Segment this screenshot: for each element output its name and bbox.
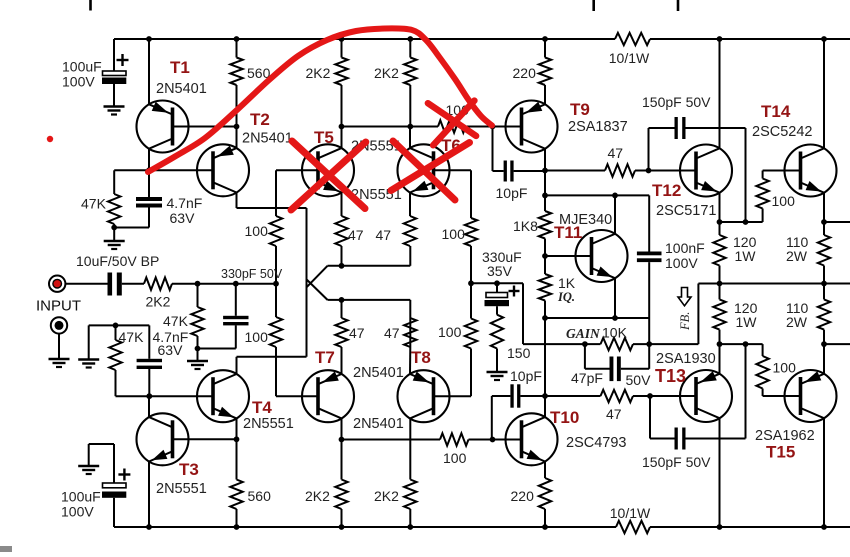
junction T4 base node bbox=[146, 393, 152, 399]
resistor 47 under T6 bbox=[376, 193, 417, 247]
svg-text:T7: T7 bbox=[315, 348, 335, 367]
resistor 120 1W lower bbox=[713, 284, 757, 345]
wire shunt ground leg bbox=[88, 325, 90, 359]
ground under 100uF bottom bbox=[78, 466, 99, 474]
svg-text:47K: 47K bbox=[119, 329, 145, 345]
wire gain line left bbox=[523, 343, 601, 345]
svg-text:2K2: 2K2 bbox=[374, 65, 399, 81]
resistor 110 2W lower bbox=[786, 284, 830, 345]
svg-text:47: 47 bbox=[348, 227, 364, 243]
wire T3 emitter down bbox=[148, 462, 150, 528]
svg-text:T8: T8 bbox=[411, 348, 431, 367]
svg-text:2W: 2W bbox=[786, 248, 808, 264]
junction upper tail bbox=[339, 263, 345, 269]
wire 100uF bottom to ground bbox=[89, 444, 114, 466]
wire input column to T7 base bbox=[276, 395, 318, 397]
svg-text:150pF 50V: 150pF 50V bbox=[642, 94, 711, 110]
wire tail diagonal upper bbox=[307, 266, 328, 288]
resistor 47 under T5 bbox=[335, 193, 363, 266]
svg-text:T5: T5 bbox=[314, 128, 334, 147]
wire T1 emitter to rail bbox=[148, 39, 150, 104]
wire feedback riser bbox=[697, 284, 699, 345]
wire T14 base wire bbox=[763, 170, 801, 172]
wire vertical bus x306 bbox=[306, 208, 308, 357]
junction T5 collector node bbox=[339, 124, 345, 130]
wire lower 47 line left bbox=[545, 395, 601, 397]
junction tap line left bbox=[468, 280, 474, 286]
junction 150pF left at T12 base bbox=[646, 168, 652, 174]
wire T15 emitter stub bbox=[824, 343, 850, 345]
wire T3 collector up bbox=[148, 396, 150, 417]
wire T15 collector to rail bbox=[823, 418, 825, 527]
wire T11 emitter down bbox=[614, 278, 616, 318]
input jack signal bbox=[36, 276, 81, 315]
svg-text:2N5401: 2N5401 bbox=[353, 416, 404, 432]
svg-text:10K: 10K bbox=[602, 325, 628, 341]
wire T13 base wire bbox=[650, 395, 696, 397]
svg-text:47: 47 bbox=[376, 227, 392, 243]
resistor 120 1W upper bbox=[713, 222, 756, 284]
junction 220 rail bbox=[542, 36, 548, 42]
junction T14 emitter node bbox=[821, 219, 827, 225]
wire T2 collector down bbox=[236, 193, 238, 209]
resistor 100 T6 base column bbox=[442, 170, 478, 283]
svg-text:10/1W: 10/1W bbox=[609, 50, 650, 66]
svg-text:220: 220 bbox=[511, 488, 535, 504]
svg-text:T14: T14 bbox=[761, 102, 791, 121]
junction 2K2 bottom second rail bbox=[407, 524, 413, 530]
wire T11 base wire bbox=[545, 255, 592, 257]
junction T4 emitter / T3 base bbox=[234, 436, 240, 442]
svg-text:10pF: 10pF bbox=[496, 185, 528, 201]
wire T7 collector line bbox=[342, 439, 441, 441]
svg-text:T15: T15 bbox=[766, 443, 795, 462]
resistor 220 top bbox=[513, 39, 552, 104]
resistor 100 to T10 base bbox=[440, 433, 469, 466]
capacitor 150pF 50V upper bbox=[642, 94, 746, 222]
svg-text:100V: 100V bbox=[62, 74, 95, 90]
junction T11 emitter node bbox=[542, 315, 548, 321]
transistor T4 2N5551 bbox=[197, 370, 294, 432]
transistor T14 2SC5242 bbox=[752, 102, 837, 197]
capacitor 100uF 100V bottom bbox=[61, 444, 130, 527]
svg-text:2SA1930: 2SA1930 bbox=[656, 351, 716, 367]
junction T15 collector rail bbox=[821, 524, 827, 530]
wire T9 collector down bbox=[544, 149, 546, 171]
wire T14 emitter stub bbox=[824, 221, 850, 223]
junction 150pF right bbox=[743, 219, 749, 225]
svg-text:220: 220 bbox=[513, 65, 537, 81]
red X over 100 resistor bbox=[428, 101, 476, 146]
wire output tap line y283 bbox=[471, 282, 523, 284]
svg-text:1W: 1W bbox=[736, 314, 758, 330]
svg-text:T9: T9 bbox=[570, 100, 590, 119]
wire bottom supply rail left segment bbox=[114, 526, 616, 528]
capacitor 330pF 50V bbox=[198, 267, 283, 349]
transistor T12 2SC5171 bbox=[652, 145, 732, 220]
wire T10 collector up bbox=[544, 396, 546, 417]
wire T4 emitter down bbox=[236, 418, 238, 439]
wire lower tail line bbox=[328, 300, 411, 318]
ground under 100uF top bbox=[104, 107, 125, 115]
junction column y195 bbox=[542, 193, 548, 199]
wire T2 base line bbox=[150, 169, 213, 171]
junction 47K lower top bbox=[113, 323, 119, 329]
ground under ground jack bbox=[49, 359, 70, 367]
svg-text:100: 100 bbox=[773, 360, 797, 376]
svg-text:100uF: 100uF bbox=[62, 59, 102, 75]
svg-text:2K2: 2K2 bbox=[146, 294, 171, 310]
capacitor 4.7nF 63V upper bbox=[114, 170, 202, 227]
junction T12 collector rail bbox=[717, 36, 723, 42]
junction 47pF right bbox=[646, 341, 652, 347]
capacitor 10uF/50V BP bbox=[76, 253, 159, 296]
junction 47K / 4.7nF bottom bbox=[111, 225, 117, 231]
junction input node bbox=[273, 281, 279, 287]
svg-text:4.7nF: 4.7nF bbox=[167, 195, 203, 211]
wire bus to T4 collector bbox=[237, 357, 307, 374]
wire T13 emitter up bbox=[719, 344, 721, 374]
input ground jack bbox=[51, 317, 67, 333]
wire bottom supply rail right segment bbox=[650, 526, 850, 528]
junction T10 collector node bbox=[542, 393, 548, 399]
wire shunt to T4 base bbox=[116, 395, 214, 397]
transistor T13 2SA1930 bbox=[655, 351, 732, 422]
junction T15 emitter node bbox=[821, 341, 827, 347]
transistor T10 2SC4793 bbox=[506, 408, 627, 465]
svg-text:1K8: 1K8 bbox=[513, 218, 538, 234]
svg-text:47: 47 bbox=[608, 145, 624, 161]
svg-text:FB.: FB. bbox=[678, 312, 692, 331]
junction T13 collector rail bbox=[717, 524, 723, 530]
wire T11 collector up bbox=[614, 195, 616, 233]
wire T5 collector up bbox=[341, 127, 343, 149]
wire gain line right bbox=[633, 343, 698, 345]
junction 47pF left bbox=[582, 341, 588, 347]
wire T15 emitter up bbox=[823, 344, 825, 374]
svg-text:47: 47 bbox=[349, 325, 365, 341]
wire shunt line y325 bbox=[89, 324, 150, 326]
svg-text:63V: 63V bbox=[158, 342, 184, 358]
svg-text:2W: 2W bbox=[786, 314, 808, 330]
resistor 100 horizontal crossed bbox=[438, 102, 469, 133]
resistor 100 T14 base bbox=[756, 171, 795, 223]
svg-text:T1: T1 bbox=[170, 58, 190, 77]
wire T8 base bbox=[434, 395, 472, 397]
svg-text:100: 100 bbox=[443, 450, 467, 466]
wire T7 collector down bbox=[341, 418, 343, 439]
resistor 100 T15 base bbox=[756, 344, 796, 396]
junction T11 collector bbox=[612, 193, 618, 199]
svg-text:47pF: 47pF bbox=[571, 370, 603, 386]
transistor T8 2N5401 bbox=[353, 348, 450, 432]
svg-text:47: 47 bbox=[606, 406, 622, 422]
junction T6 collector node bbox=[407, 124, 413, 130]
capacitor 330uF 35V bbox=[482, 249, 522, 315]
svg-text:2SA1837: 2SA1837 bbox=[568, 119, 628, 135]
svg-text:2SA1962: 2SA1962 bbox=[755, 428, 815, 444]
svg-text:2N5551: 2N5551 bbox=[243, 416, 294, 432]
wire node to 47K upper bbox=[114, 170, 150, 194]
wire T8 collector down bbox=[409, 418, 411, 479]
svg-text:MJE340: MJE340 bbox=[559, 212, 612, 228]
wire T10 base wire bbox=[493, 439, 522, 441]
capacitor 10pF upper bbox=[493, 127, 546, 202]
corner artifact bbox=[0, 546, 12, 552]
transistor T11 MJE340 bbox=[554, 212, 628, 282]
svg-text:150: 150 bbox=[507, 345, 531, 361]
wire T15 base wire bbox=[763, 395, 801, 397]
wire lower 47 line right bbox=[633, 395, 696, 397]
svg-text:T2: T2 bbox=[250, 110, 270, 129]
junction 330uF top bbox=[494, 280, 500, 286]
svg-text:2SC5242: 2SC5242 bbox=[752, 124, 812, 140]
resistor 2K2 top first bbox=[306, 39, 348, 127]
junction output 120 bbox=[717, 281, 723, 287]
wire T5 base bbox=[276, 170, 318, 208]
red annotation dot bbox=[47, 136, 53, 142]
svg-text:2K2: 2K2 bbox=[305, 488, 330, 504]
svg-text:100V: 100V bbox=[61, 504, 94, 520]
net stub tick top-left bbox=[89, 0, 92, 11]
svg-text:100uF: 100uF bbox=[61, 489, 101, 505]
resistor 150 bbox=[491, 315, 531, 372]
ground under input 47K bbox=[187, 349, 208, 370]
resistor 10K gain bbox=[566, 325, 633, 351]
capacitor 10pF lower bbox=[492, 368, 545, 439]
resistor 47 to T12 base bbox=[545, 145, 696, 177]
transistor T3 2N5551 bbox=[137, 413, 207, 497]
junction output 110 bbox=[821, 281, 827, 287]
wire T13 collector to rail bbox=[719, 418, 721, 527]
svg-text:150pF 50V: 150pF 50V bbox=[642, 454, 711, 470]
resistor 47 to T13 base bbox=[601, 390, 634, 422]
ground under 47K upper-left bbox=[104, 228, 125, 250]
svg-text:100: 100 bbox=[245, 223, 269, 239]
wire upper tail line bbox=[328, 246, 411, 266]
resistor 47K upper-left bbox=[81, 194, 120, 228]
svg-text:2K2: 2K2 bbox=[374, 488, 399, 504]
junction T11 emitter line bbox=[612, 315, 618, 321]
svg-text:35V: 35V bbox=[487, 263, 513, 279]
capacitor 47pF 50V bbox=[571, 344, 651, 388]
resistor 2K2 input bbox=[144, 278, 172, 310]
capacitor 100nF 100V bbox=[637, 195, 705, 344]
transistor T6 2N5551 bbox=[351, 136, 461, 203]
svg-text:47K: 47K bbox=[81, 196, 107, 212]
svg-text:50V: 50V bbox=[626, 372, 652, 388]
wire jack to cap bbox=[65, 283, 107, 285]
svg-text:2N5401: 2N5401 bbox=[156, 81, 207, 97]
net stub tick top-mid2 bbox=[677, 0, 680, 11]
svg-text:47K: 47K bbox=[163, 313, 189, 329]
svg-text:10uF/50V BP: 10uF/50V BP bbox=[76, 253, 159, 269]
junction 560 rail bbox=[234, 36, 240, 42]
resistor 560 bottom bbox=[230, 439, 271, 527]
junction T1 collector / T2 base node bbox=[146, 167, 152, 173]
capacitor 100uF 100V top bbox=[62, 39, 129, 106]
resistor 47 above T8 bbox=[384, 318, 417, 374]
wire T13 emitter line bbox=[720, 343, 763, 345]
svg-text:IQ.: IQ. bbox=[557, 290, 575, 304]
svg-text:47: 47 bbox=[384, 325, 400, 341]
wire T1 base to node bbox=[173, 126, 237, 128]
junction 2K2 second rail bbox=[407, 36, 413, 42]
junction T9 base node bbox=[490, 124, 496, 130]
svg-text:100: 100 bbox=[772, 193, 796, 209]
svg-text:10pF: 10pF bbox=[510, 368, 542, 384]
wire T11 collector feed line bbox=[545, 194, 649, 196]
svg-text:1K: 1K bbox=[558, 275, 576, 291]
wire T2 emitter up bbox=[236, 127, 238, 149]
ground under shunt bbox=[78, 360, 99, 368]
resistor 2K2 top second bbox=[374, 39, 417, 127]
junction 220 bottom rail bbox=[542, 524, 548, 530]
transistor T5 2N5551 bbox=[302, 128, 402, 196]
red X over T6 bbox=[391, 141, 470, 200]
junction 560 bottom rail bbox=[234, 524, 240, 530]
junction 150pF lower right bbox=[743, 341, 749, 347]
junction T1 emitter rail bbox=[146, 36, 152, 42]
svg-text:2N5551: 2N5551 bbox=[156, 481, 207, 497]
svg-text:2K2: 2K2 bbox=[306, 65, 331, 81]
wire T1 collector down bbox=[148, 149, 150, 171]
transistor T2 2N5401 bbox=[197, 110, 293, 196]
resistor 47 above T7 bbox=[335, 300, 364, 374]
resistor 10/1W top bbox=[609, 33, 650, 66]
wire T14 collector to rail bbox=[823, 39, 825, 148]
junction input 47K bbox=[195, 281, 201, 287]
svg-text:100: 100 bbox=[245, 329, 269, 345]
red annotation curve bbox=[148, 28, 492, 172]
resistor 47K input shunt bbox=[163, 284, 204, 349]
wire output line bbox=[698, 283, 850, 285]
junction T12 emitter node bbox=[717, 219, 723, 225]
wire 2K2 to input node bbox=[172, 283, 276, 285]
capacitor 150pF 50V lower bbox=[642, 344, 746, 470]
wire 100 to T10 base bbox=[469, 439, 493, 441]
wire bias column crossing gain line bbox=[544, 318, 546, 396]
junction lower tail bbox=[339, 297, 345, 303]
wire ground jack stem bbox=[58, 334, 60, 359]
resistor 100 upper input column bbox=[245, 208, 283, 284]
svg-text:100V: 100V bbox=[665, 255, 698, 271]
red X over T5 bbox=[291, 141, 366, 210]
junction 150pF lower left bbox=[647, 393, 653, 399]
resistor 2K2 bottom first bbox=[305, 440, 348, 528]
resistor 100 lower input column bbox=[245, 284, 283, 397]
svg-text:560: 560 bbox=[248, 488, 272, 504]
svg-text:100: 100 bbox=[438, 324, 462, 340]
wire cap to 2K2 bbox=[122, 283, 144, 285]
svg-text:T12: T12 bbox=[652, 181, 681, 200]
junction T1 base / T2 emitter / 560 bbox=[234, 124, 240, 130]
svg-text:1W: 1W bbox=[735, 248, 757, 264]
wire tail diagonal lower bbox=[307, 279, 328, 300]
svg-text:T4: T4 bbox=[252, 398, 272, 417]
resistor 47K lower bbox=[109, 325, 144, 396]
svg-text:2SC5171: 2SC5171 bbox=[656, 203, 716, 219]
ground under 150 bbox=[487, 372, 508, 380]
capacitor 4.7nF 63V lower bbox=[137, 325, 189, 396]
transistor T9 2SA1837 bbox=[506, 100, 628, 153]
resistor 220 bottom bbox=[511, 462, 552, 528]
wire 100 to T9 base bbox=[466, 126, 493, 128]
svg-text:T10: T10 bbox=[550, 408, 579, 427]
svg-text:330pF 50V: 330pF 50V bbox=[221, 267, 283, 281]
resistor 10/1W bottom bbox=[610, 505, 651, 533]
wire top supply rail right segment bbox=[650, 38, 850, 40]
svg-text:100nF: 100nF bbox=[665, 240, 705, 256]
junction T14 collector rail bbox=[821, 36, 827, 42]
svg-text:2N5401: 2N5401 bbox=[353, 365, 404, 381]
resistor 110 2W upper bbox=[786, 222, 830, 284]
svg-text:100: 100 bbox=[442, 226, 466, 242]
wire T9 base wire bbox=[493, 126, 522, 128]
junction T9 collector node bbox=[542, 168, 548, 174]
svg-text:T3: T3 bbox=[179, 460, 199, 479]
wire T11 emitter line bbox=[545, 317, 649, 319]
wire T12 collector to rail bbox=[719, 39, 721, 148]
FB arrow symbol bbox=[678, 288, 692, 332]
junction T7 collector bbox=[339, 437, 345, 443]
junction 2K2 first rail bbox=[339, 36, 345, 42]
resistor 560 top bbox=[230, 39, 270, 127]
svg-text:10/1W: 10/1W bbox=[610, 505, 651, 521]
svg-text:2SC4793: 2SC4793 bbox=[566, 435, 626, 451]
junction 47K input bottom bbox=[195, 346, 201, 352]
transistor T15 2SA1962 bbox=[755, 370, 837, 462]
resistor 1K8 bbox=[513, 171, 551, 257]
junction input 330pF bbox=[233, 281, 239, 287]
junction T10 base node bbox=[490, 437, 496, 443]
wire collector bus y126 bbox=[342, 126, 439, 128]
transistor T7 2N5401 bbox=[302, 348, 404, 422]
resistor 100 above T8 base bbox=[438, 283, 477, 396]
junction T11 base node bbox=[542, 253, 548, 259]
svg-text:2N5401: 2N5401 bbox=[242, 131, 293, 147]
transistor T1 2N5401 bbox=[137, 58, 207, 153]
wire T2 collector line y208 bbox=[237, 207, 307, 209]
wire top supply rail left segment bbox=[114, 38, 615, 40]
svg-text:63V: 63V bbox=[170, 210, 196, 226]
resistor 1K bbox=[539, 256, 576, 318]
wire T3 base wire bbox=[173, 438, 237, 440]
wire T12 emitter down bbox=[719, 193, 721, 222]
junction T3 emitter rail bbox=[146, 524, 152, 530]
svg-text:T13: T13 bbox=[655, 366, 686, 386]
wire T6 base bbox=[434, 169, 472, 171]
net stub tick top-mid bbox=[592, 0, 595, 11]
wire tap to gain line bbox=[522, 283, 524, 344]
wire T14 emitter down bbox=[823, 193, 825, 222]
resistor 2K2 bottom second bbox=[374, 480, 417, 528]
wire T6 collector up bbox=[409, 127, 411, 149]
svg-text:GAIN: GAIN bbox=[566, 326, 601, 341]
junction T13 emitter node bbox=[717, 341, 723, 347]
wire T12 emitter line bbox=[720, 221, 763, 223]
junction 2K2 bottom first rail bbox=[339, 524, 345, 530]
svg-text:INPUT: INPUT bbox=[36, 298, 81, 315]
